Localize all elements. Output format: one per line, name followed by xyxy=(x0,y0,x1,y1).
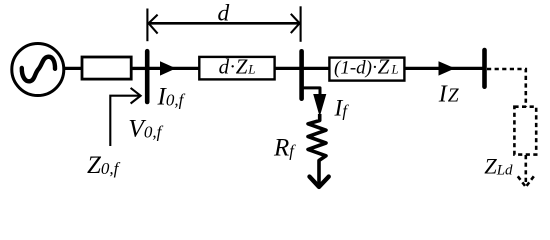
dashed arrow to ground xyxy=(518,176,534,187)
svg-text:(1-d): (1-d) xyxy=(334,57,372,78)
svg-text:·: · xyxy=(372,57,377,78)
fault branch wire xyxy=(302,88,320,95)
wire box to bus M xyxy=(132,67,146,70)
impedance box d·ZL xyxy=(199,57,274,80)
svg-text:L: L xyxy=(391,62,399,76)
dimension line d xyxy=(147,6,300,42)
wire bus M to d·ZL box xyxy=(149,67,200,70)
AC source G xyxy=(12,44,64,96)
fault resistor Rf xyxy=(308,114,326,184)
current arrow IZ xyxy=(439,61,456,75)
svg-text:Z: Z xyxy=(236,55,248,79)
fault bus F xyxy=(299,51,304,98)
current arrow If xyxy=(313,94,326,117)
wire fault bus to (1-d)·ZL box xyxy=(303,67,330,70)
wire box to fault bus xyxy=(274,67,300,70)
svg-text:d: d xyxy=(218,1,230,27)
impedance box (1-d)·ZL xyxy=(329,58,404,81)
svg-text:L: L xyxy=(247,62,255,77)
current arrow I0,f xyxy=(160,61,176,75)
load box ZLd (dashed) xyxy=(514,107,536,155)
measurement pointer (V0,f / Z0,f) xyxy=(110,88,140,146)
svg-text:d: d xyxy=(219,55,230,79)
bus M (sending-end busbar) xyxy=(145,51,150,102)
dashed wire to load xyxy=(487,69,526,107)
svg-text:IZ: IZ xyxy=(438,81,459,107)
wire box to bus N xyxy=(404,67,483,70)
svg-text:Z: Z xyxy=(378,54,390,78)
bus N (receiving-end busbar) xyxy=(482,50,487,87)
ground arrow (fault path) xyxy=(310,177,329,187)
svg-text:·: · xyxy=(230,56,235,78)
source impedance box xyxy=(82,57,131,79)
dashed wire below load xyxy=(524,155,527,183)
wire source to box xyxy=(64,67,84,70)
